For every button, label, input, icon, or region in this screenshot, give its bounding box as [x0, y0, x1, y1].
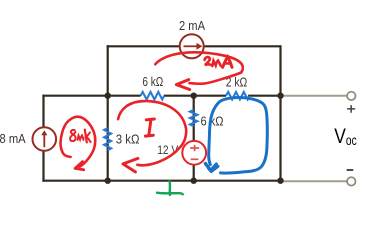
wire left branch	[42, 95, 44, 182]
gray lead top terminal	[281, 95, 348, 97]
junction dots middle rail	[105, 93, 111, 99]
terminal bottom	[347, 177, 355, 185]
voltage source V1 12V	[182, 141, 206, 165]
annotation handwritten 2mA	[205, 57, 232, 68]
svg-text:3 kΩ: 3 kΩ	[116, 131, 140, 146]
annotation red loop I	[118, 101, 186, 165]
wire top rail	[107, 45, 281, 47]
annotation red loop 8mA	[61, 117, 96, 167]
wire middle rail	[44, 95, 281, 96]
wire left vertical of top loop / 3k branch	[107, 45, 109, 181]
junction dots bottom rail	[105, 178, 111, 184]
resistor R 6k top (zigzag)	[141, 92, 165, 100]
resistor 3k vertical (zigzag)	[104, 128, 111, 150]
annotation blue loop	[209, 98, 268, 174]
terminal top	[347, 92, 355, 100]
resistor R 2k top (zigzag)	[226, 92, 250, 100]
svg-text:6 kΩ: 6 kΩ	[142, 74, 163, 89]
svg-text:2 mA: 2 mA	[179, 18, 205, 33]
ground symbol (green)	[168, 181, 171, 195]
resistor 6k vertical (zigzag)	[190, 110, 197, 126]
current source I2 8mA	[33, 127, 57, 151]
svg-text:oc: oc	[346, 133, 357, 148]
wire bottom rail	[42, 180, 281, 182]
wire right vertical branch	[279, 45, 281, 181]
label plus terminal	[347, 105, 355, 113]
annotation handwritten 8mA	[70, 130, 91, 143]
label minus terminal	[347, 169, 354, 171]
svg-text:V: V	[334, 125, 346, 148]
annotation red loop 2mA	[155, 52, 242, 83]
current source I1 2mA	[180, 34, 204, 58]
wire 12V/6k branch	[193, 96, 195, 181]
annotation handwritten I	[145, 119, 154, 136]
gray lead bottom terminal	[281, 180, 348, 182]
svg-text:8 mA: 8 mA	[0, 131, 26, 146]
svg-text:12 V: 12 V	[157, 143, 178, 157]
